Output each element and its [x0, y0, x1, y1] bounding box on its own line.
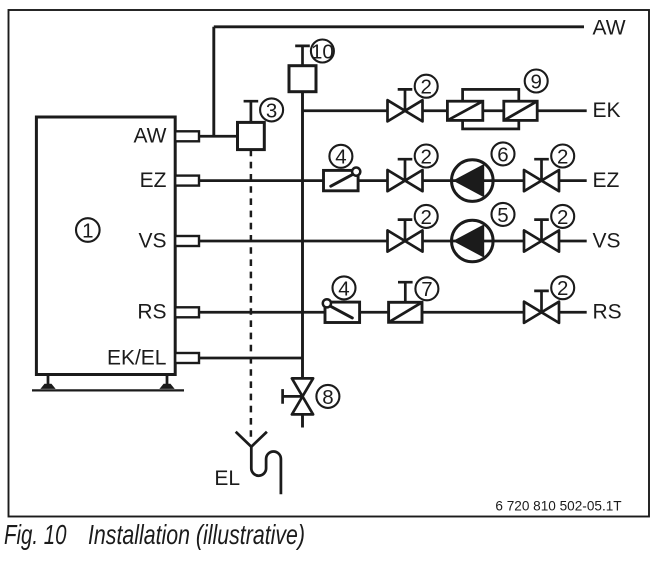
svg-text:7: 7	[421, 278, 432, 301]
component box 3	[238, 101, 265, 149]
port stub RS	[175, 307, 199, 317]
pump 6	[452, 160, 494, 202]
pump 5	[452, 220, 494, 262]
svg-text:2: 2	[420, 206, 431, 229]
svg-text:2: 2	[557, 277, 568, 300]
pipe AW to expansion box	[199, 135, 238, 138]
port stub VS	[175, 236, 199, 246]
shut-off valve 2	[388, 159, 423, 191]
svg-text:2: 2	[557, 145, 568, 168]
svg-text:EK/EL: EK/EL	[107, 346, 167, 369]
pipe RS	[199, 311, 587, 314]
pipe below valve 8	[301, 414, 304, 427]
port stub EZ	[175, 176, 199, 186]
riser pipe to top AW	[212, 27, 215, 137]
svg-text:4: 4	[338, 277, 349, 300]
boiler foot left	[41, 375, 54, 389]
check valve 4 (RS)	[323, 299, 360, 322]
svg-text:EZ: EZ	[593, 169, 620, 192]
designator circle 4 (RS)	[333, 276, 356, 300]
designator circle 10	[311, 40, 334, 64]
shut-off valve 2	[524, 220, 559, 252]
svg-text:VS: VS	[593, 229, 621, 252]
svg-text:3: 3	[266, 99, 277, 122]
svg-text:RS: RS	[137, 301, 166, 324]
shut-off valve 2	[388, 89, 423, 121]
designator circle 2	[415, 75, 438, 99]
svg-text:8: 8	[322, 386, 333, 409]
drain valve 8	[283, 378, 314, 414]
check valve 4 (EZ)	[324, 168, 361, 191]
pipe EK	[303, 109, 587, 112]
svg-text:AW: AW	[593, 17, 626, 40]
pipe EK/EL	[199, 357, 303, 360]
shut-off valve 2	[524, 291, 559, 323]
svg-text:EL: EL	[214, 467, 240, 490]
designator circle 7	[415, 277, 438, 301]
filter group 9 bypass loop	[463, 89, 519, 128]
main vertical pipe	[301, 92, 304, 379]
svg-text:5: 5	[497, 204, 508, 227]
designator circle 8	[316, 385, 339, 409]
pipe EZ	[199, 179, 587, 182]
svg-text:EK: EK	[593, 99, 621, 122]
designator circle 2	[551, 205, 574, 229]
svg-text:4: 4	[335, 146, 346, 169]
svg-text:2: 2	[420, 76, 431, 99]
svg-text:Installation (illustrative): Installation (illustrative)	[88, 519, 305, 550]
svg-text:VS: VS	[138, 229, 166, 252]
boiler unit 1	[36, 117, 175, 375]
pipe VS	[199, 240, 587, 243]
svg-text:AW: AW	[133, 125, 166, 148]
designator circle 2	[415, 205, 438, 229]
designator circle 2	[551, 276, 574, 300]
svg-text:EZ: EZ	[140, 169, 167, 192]
port stub EKEL	[175, 353, 199, 363]
port stub AW	[175, 131, 199, 141]
filter box 9 right	[504, 101, 537, 120]
designator circle 4 (EZ)	[329, 145, 352, 169]
svg-text:10: 10	[311, 40, 334, 63]
svg-text:6: 6	[497, 143, 508, 166]
funnel EL	[236, 432, 267, 447]
designator circle 1	[76, 218, 100, 242]
designator circle 2	[415, 145, 438, 169]
svg-text:2: 2	[557, 206, 568, 229]
floor line	[32, 389, 184, 391]
siphon trap	[251, 447, 281, 495]
svg-text:1: 1	[82, 219, 93, 242]
svg-text:2: 2	[420, 145, 431, 168]
designator circle 9	[525, 70, 548, 94]
dashed drain line	[250, 150, 253, 439]
svg-text:RS: RS	[593, 301, 622, 324]
designator circle 6	[492, 142, 515, 166]
shut-off valve 2	[524, 159, 559, 191]
svg-text:6 720 810 502-05.1T: 6 720 810 502-05.1T	[495, 499, 621, 514]
boiler foot right	[160, 375, 173, 389]
component box 10	[289, 46, 316, 92]
designator circle 3	[260, 98, 283, 122]
motor valve 7	[389, 282, 422, 322]
svg-text:Fig. 10: Fig. 10	[4, 519, 67, 550]
svg-text:9: 9	[530, 70, 541, 93]
designator circle 5	[492, 203, 515, 227]
designator circle 2	[551, 145, 574, 169]
shut-off valve 2	[388, 220, 423, 252]
top AW pipe	[214, 25, 584, 28]
filter box 9 left	[447, 101, 482, 120]
